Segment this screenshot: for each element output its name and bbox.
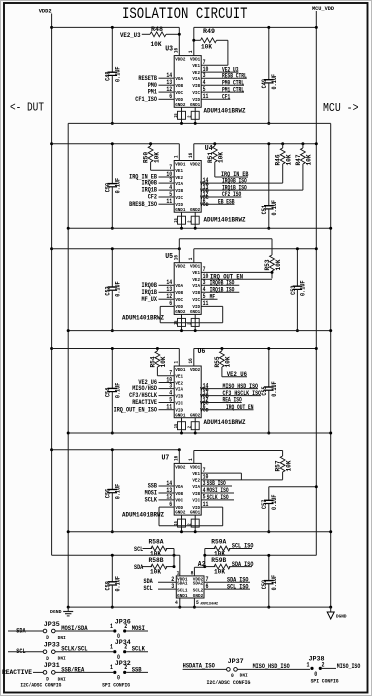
jumper JP37: [183, 658, 248, 679]
svg-text:5: 5: [196, 599, 199, 606]
svg-text:2: 2: [124, 644, 127, 651]
wire VDD2 left power rail: [51, 14, 53, 556]
svg-text:0.1UF: 0.1UF: [115, 576, 122, 592]
svg-text:16: 16: [174, 255, 180, 260]
svg-text:JP32: JP32: [115, 660, 131, 667]
svg-text:0.1UF: 0.1UF: [271, 575, 278, 591]
wire section6 left VDD feed: [52, 554, 180, 556]
wire C57 to MCU_VDD rail: [269, 486, 317, 488]
svg-text:SCL: SCL: [134, 546, 143, 553]
svg-text:0.1UF: 0.1UF: [115, 66, 122, 82]
pin 3 wire: [159, 182, 175, 184]
svg-text:VDD2: VDD2: [175, 264, 185, 270]
pin 1 VDD1: [174, 349, 180, 367]
resistor R59A 10K: [205, 539, 252, 558]
svg-text:RESB_CTRL: RESB_CTRL: [222, 72, 247, 79]
svg-text:C59: C59: [261, 580, 268, 589]
svg-text:16: 16: [174, 456, 180, 461]
svg-text:SDA1: SDA1: [177, 581, 188, 587]
svg-text:SCLK: SCLK: [132, 646, 145, 653]
U6 ground pins: [173, 418, 199, 430]
svg-text:REA_ISO: REA_ISO: [223, 397, 242, 404]
svg-text:MF_UX: MF_UX: [142, 296, 158, 303]
svg-text:1: 1: [110, 644, 113, 651]
svg-text:VOA: VOA: [175, 76, 183, 82]
resistor R49 10K: [192, 28, 228, 65]
svg-text:6: 6: [206, 583, 209, 590]
svg-text:C51: C51: [261, 205, 268, 214]
jumper JP34: [110, 639, 148, 661]
svg-text:VDD1: VDD1: [175, 162, 185, 168]
svg-text:SSB/REA: SSB/REA: [61, 666, 84, 673]
svg-text:1: 1: [177, 570, 180, 577]
pin 10 wire: [159, 176, 175, 178]
capacitor C54: [111, 349, 113, 389]
wire section5 ground: [68, 531, 331, 533]
svg-text:MF: MF: [210, 293, 216, 300]
svg-text:VDD2: VDD2: [175, 464, 185, 470]
svg-text:VDD2: VDD2: [39, 8, 52, 15]
svg-text:VIB: VIB: [175, 188, 183, 194]
svg-text:0.1UF: 0.1UF: [115, 383, 122, 399]
svg-text:SDA_ISO: SDA_ISO: [232, 561, 254, 568]
svg-text:SSB_ISO: SSB_ISO: [207, 480, 226, 487]
wire section1 ground: [68, 122, 331, 124]
jumper JP38: [307, 655, 361, 678]
wire SCLK/SCL: [55, 646, 113, 653]
pin 5 GND2: [194, 598, 199, 607]
junction U5 gnd pins: [181, 326, 183, 330]
svg-text:R46: R46: [275, 154, 282, 165]
pin 6 SCL2: [204, 583, 250, 590]
svg-text:VIA: VIA: [192, 283, 200, 289]
capacitor C55: [268, 349, 270, 388]
svg-text:JP34: JP34: [115, 639, 131, 646]
svg-text:C56: C56: [105, 489, 112, 498]
pin 16 VDD2: [188, 144, 194, 161]
pin 1 VDD1: [188, 249, 194, 263]
U5 ground pins: [173, 314, 199, 326]
svg-text:VE2: VE2: [192, 277, 200, 283]
junction rail VDD2 section2: [50, 142, 53, 145]
pin 14 wire: [159, 284, 175, 286]
pin 4 wire: [201, 492, 234, 494]
pin 16 VDD2: [174, 27, 180, 55]
svg-text:2: 2: [187, 115, 193, 117]
svg-text:4: 4: [175, 599, 178, 606]
svg-text:2: 2: [187, 220, 193, 222]
svg-text:ADUM1250ARZ: ADUM1250ARZ: [201, 602, 219, 606]
svg-text:ADUM1401BRWZ: ADUM1401BRWZ: [204, 419, 246, 426]
pin 7 VE1 wire: [201, 472, 241, 474]
svg-text:10K: 10K: [214, 569, 225, 576]
pin 12 wire: [201, 196, 241, 198]
svg-text:EB_ESB: EB_ESB: [218, 198, 235, 205]
svg-text:2: 2: [124, 664, 127, 671]
svg-text:MISO_ISO: MISO_ISO: [337, 663, 361, 670]
svg-text:2: 2: [187, 426, 193, 428]
svg-text:1: 1: [110, 623, 113, 630]
svg-text:MOSI: MOSI: [132, 625, 145, 632]
svg-text:D: D: [46, 656, 49, 662]
svg-text:MCU ->: MCU ->: [323, 101, 359, 115]
svg-text:R47: R47: [295, 154, 302, 165]
svg-text:VIB: VIB: [192, 290, 200, 296]
svg-text:VOC: VOC: [175, 297, 183, 303]
svg-text:0.1UF: 0.1UF: [115, 178, 122, 194]
pin 3 wire: [201, 284, 239, 286]
node VDD2 stem: [50, 26, 53, 29]
svg-text:R50: R50: [143, 152, 150, 163]
svg-text:IRQ_OUT_EN: IRQ_OUT_EN: [226, 404, 254, 411]
svg-text:VOB: VOB: [175, 83, 183, 89]
svg-text:10K: 10K: [218, 152, 225, 163]
svg-text:VOC: VOC: [175, 90, 183, 96]
svg-text:10K: 10K: [153, 152, 160, 163]
pin 12 wire: [159, 298, 175, 300]
wire section1 left VDD2 feed: [52, 26, 180, 28]
svg-text:1: 1: [110, 664, 113, 671]
pin 7 VE1 wire: [201, 271, 272, 273]
svg-text:VE1: VE1: [175, 168, 183, 174]
svg-text:6: 6: [169, 300, 172, 308]
svg-text:11: 11: [203, 501, 209, 509]
isolator U5 ADUM1401BRWZ body: [174, 263, 201, 315]
svg-text:11: 11: [203, 300, 209, 308]
svg-text:SCL_ISO: SCL_ISO: [232, 543, 254, 550]
svg-text:10K: 10K: [201, 44, 212, 51]
pin 16 VDD2: [174, 239, 180, 263]
svg-text:1: 1: [188, 50, 194, 53]
svg-text:VIA: VIA: [192, 76, 200, 82]
svg-text:3: 3: [171, 583, 174, 590]
svg-text:1: 1: [188, 258, 194, 261]
svg-text:5: 5: [203, 293, 206, 301]
pin 10 VE2 wire: [201, 479, 282, 481]
junction U4 gnd pins: [181, 224, 183, 228]
svg-text:C49: C49: [261, 79, 268, 88]
pin 6 wire: [201, 409, 253, 411]
wire MOSI/SDA: [55, 625, 113, 632]
isolator U7 ADUM1401BRWZ body: [174, 463, 201, 515]
wire section2 ground: [68, 227, 331, 229]
svg-text:1: 1: [188, 458, 194, 461]
svg-text:16: 16: [174, 48, 180, 53]
svg-text:VOD: VOD: [175, 97, 183, 103]
svg-text:0.1UF: 0.1UF: [271, 74, 278, 90]
svg-text:MISO/HSD: MISO/HSD: [132, 385, 157, 392]
svg-text:10K: 10K: [160, 356, 167, 367]
svg-text:SCLK_ISO: SCLK_ISO: [207, 494, 229, 501]
svg-text:C58: C58: [105, 581, 112, 590]
resistor R50 10K: [143, 142, 175, 170]
svg-text:VE2_U6: VE2_U6: [227, 371, 247, 378]
svg-text:JP37: JP37: [228, 658, 244, 665]
wire section4 right MCU_VDD feed: [194, 348, 316, 350]
svg-text:SDA: SDA: [134, 564, 143, 571]
svg-text:VIA: VIA: [175, 386, 183, 392]
svg-text:15: 15: [173, 424, 179, 429]
wire MCU_VDD right power rail: [315, 11, 317, 555]
svg-text:ADUM1401BRWZ: ADUM1401BRWZ: [204, 108, 246, 115]
svg-text:C50: C50: [105, 183, 112, 192]
svg-text:DNI: DNI: [58, 657, 66, 662]
svg-text:VE1: VE1: [192, 63, 200, 69]
svg-text:C57: C57: [261, 500, 268, 509]
svg-text:SCLK: SCLK: [145, 497, 157, 504]
svg-text:0.1UF: 0.1UF: [115, 484, 122, 500]
pin 12 wire: [159, 91, 175, 93]
wire MISO_HSD_ISO: [237, 663, 310, 670]
svg-text:VID: VID: [192, 505, 200, 511]
pin 5 wire: [201, 298, 217, 300]
pin 12 wire: [201, 402, 242, 404]
svg-text:1: 1: [174, 361, 180, 364]
wire SSB/REA: [55, 666, 113, 673]
wire section6 right MCU_VDD feed: [205, 554, 316, 556]
svg-text:VID: VID: [175, 202, 183, 208]
svg-text:VOC: VOC: [175, 498, 183, 504]
svg-text:U5: U5: [165, 253, 173, 261]
svg-text:CF2_ISO: CF2_ISO: [222, 191, 241, 198]
wire R59 pullup bus: [204, 549, 206, 568]
pin 1 VDD1: [174, 144, 180, 161]
svg-text:11: 11: [166, 404, 172, 412]
junction U7 gnd pins: [181, 527, 183, 532]
jumper JP33: [8, 642, 66, 662]
capacitor C51: [268, 144, 270, 206]
svg-text:C55: C55: [261, 386, 268, 395]
svg-text:1: 1: [174, 155, 180, 158]
pin 1 VDD1: [188, 451, 194, 464]
svg-text:CF1_ISO: CF1_ISO: [135, 96, 157, 103]
svg-text:BRESB_ISO: BRESB_ISO: [129, 201, 157, 208]
wire VE1 loop to R53: [179, 238, 272, 240]
wire VE1-VE2 tie: [240, 473, 242, 480]
svg-text:10K: 10K: [275, 259, 282, 270]
svg-text:10K: 10K: [151, 41, 162, 48]
svg-text:16: 16: [188, 358, 194, 363]
svg-text:DNI: DNI: [240, 674, 248, 679]
resistor R46 10K pullup: [275, 142, 293, 183]
U4 ground pins: [173, 212, 199, 224]
svg-text:R51: R51: [207, 152, 214, 163]
pin 14 wire: [159, 77, 175, 79]
svg-text:15: 15: [173, 218, 179, 223]
svg-text:R57: R57: [275, 460, 282, 471]
svg-text:R55: R55: [214, 356, 221, 367]
capacitor C57: [268, 487, 270, 501]
svg-text:JP35: JP35: [44, 621, 60, 628]
svg-text:VIC: VIC: [175, 195, 183, 201]
U7 ground pins: [173, 515, 199, 527]
svg-text:<- DUT: <- DUT: [10, 101, 44, 115]
pin 13 wire: [159, 84, 175, 86]
pin 13 wire: [159, 492, 175, 494]
svg-text:IRQ0B_ISO: IRQ0B_ISO: [210, 280, 235, 287]
svg-text:1: 1: [307, 662, 310, 669]
svg-text:IRQ0B: IRQ0B: [142, 282, 158, 289]
svg-text:CF1: CF1: [222, 94, 230, 101]
junction rail VDD2 section4: [50, 347, 53, 350]
svg-text:SCL_ISO: SCL_ISO: [227, 583, 249, 590]
svg-text:SSB: SSB: [132, 666, 142, 673]
svg-text:IRQ_OUT_EN_ISO: IRQ_OUT_EN_ISO: [114, 406, 157, 413]
svg-text:10K: 10K: [225, 356, 232, 367]
svg-text:VOD: VOD: [175, 505, 183, 511]
svg-text:VE1: VE1: [175, 374, 183, 380]
pin 6 VOD wire loop: [160, 300, 223, 323]
svg-text:VIB: VIB: [192, 83, 200, 89]
svg-text:IRQ0B: IRQ0B: [142, 180, 158, 187]
jumper JP31: [2, 662, 66, 682]
pin 4 GND1: [175, 598, 180, 607]
pin 11 wire: [159, 203, 175, 205]
svg-text:C48: C48: [105, 71, 112, 80]
svg-text:JP31: JP31: [44, 662, 60, 669]
resistor R57 10K: [275, 451, 293, 480]
pin 3 wire: [159, 388, 175, 390]
capacitor C53: [296, 249, 298, 286]
jumper JP35: [8, 621, 66, 641]
wire section4 ground: [68, 432, 331, 434]
svg-text:SCL: SCL: [144, 585, 153, 592]
wire section1 right MCU_VDD feed: [194, 26, 316, 28]
svg-text:R48: R48: [151, 26, 163, 33]
svg-text:RESETB: RESETB: [138, 75, 157, 82]
resistor R51 10K: [207, 142, 248, 177]
svg-text:6: 6: [169, 93, 172, 101]
pin 5 wire: [201, 91, 244, 93]
svg-text:0: 0: [117, 675, 120, 682]
wire section2 left VDD2 feed: [52, 143, 180, 145]
wire VDD1 to R57: [194, 450, 283, 452]
capacitor C59: [268, 555, 270, 580]
wire section4 left VDD2 feed: [52, 348, 180, 350]
wire section6 ground: [68, 606, 331, 608]
svg-text:VID: VID: [175, 408, 183, 414]
junction U3 gnd pins: [181, 119, 183, 123]
svg-text:SSB: SSB: [148, 483, 157, 490]
svg-text:VOD: VOD: [175, 304, 183, 310]
svg-text:SCLK/SCL: SCLK/SCL: [61, 646, 88, 653]
svg-text:VE2: VE2: [175, 380, 183, 386]
svg-text:PM1: PM1: [148, 89, 157, 96]
pin 13 wire: [159, 291, 175, 293]
svg-text:10K: 10K: [150, 569, 161, 576]
svg-text:GND2: GND2: [190, 412, 200, 418]
svg-text:VIC: VIC: [192, 498, 200, 504]
svg-text:R58A: R58A: [149, 539, 164, 546]
svg-text:VIB: VIB: [175, 393, 183, 399]
wire section3 ground: [68, 330, 331, 332]
svg-text:6: 6: [203, 198, 206, 206]
jumper JP36: [110, 619, 148, 641]
U3 ground pins: [173, 107, 199, 119]
svg-text:VE2: VE2: [175, 175, 183, 181]
svg-text:IRQ0B_ISO: IRQ0B_ISO: [222, 177, 247, 184]
svg-text:2: 2: [124, 623, 127, 630]
svg-text:VDD2: VDD2: [190, 162, 200, 168]
svg-text:GND1: GND1: [177, 593, 188, 599]
svg-text:C54: C54: [105, 388, 112, 397]
svg-text:VOA: VOA: [175, 484, 183, 490]
resistor R55 10K: [214, 347, 247, 377]
wire DGND left ground rail: [67, 123, 69, 607]
pin 11 wire: [159, 409, 175, 411]
svg-text:U4: U4: [205, 145, 213, 153]
junction rail VDD2 section3: [50, 247, 53, 250]
svg-text:HSDATA_ISO: HSDATA_ISO: [183, 663, 215, 670]
svg-text:REACTIVE: REACTIVE: [2, 669, 32, 676]
capacitor C50: [111, 144, 113, 184]
svg-text:VE1: VE1: [192, 270, 200, 276]
svg-text:SCL1: SCL1: [177, 588, 188, 594]
svg-text:MISO_HSD_ISO: MISO_HSD_ISO: [223, 383, 259, 390]
svg-text:PM1_CTRL: PM1_CTRL: [222, 86, 244, 93]
svg-text:8: 8: [191, 570, 194, 577]
pin 4 wire: [159, 189, 175, 191]
pin 5 wire: [159, 402, 175, 404]
pin 3 SCL1: [144, 583, 177, 592]
junction rail VDD2 section5: [50, 448, 53, 451]
svg-text:I2C/ADSC CONFIG: I2C/ADSC CONFIG: [20, 682, 61, 688]
svg-text:15: 15: [173, 521, 179, 526]
resistor R59B 10K: [205, 557, 252, 576]
svg-text:VDD1: VDD1: [175, 367, 185, 373]
svg-text:VIC: VIC: [175, 400, 183, 406]
svg-text:VE2_U3: VE2_U3: [120, 32, 141, 39]
svg-text:VID: VID: [192, 304, 200, 310]
svg-text:6: 6: [203, 404, 206, 412]
svg-text:2: 2: [322, 662, 325, 669]
wire section3 right MCU_VDD feed: [194, 248, 316, 250]
svg-text:JP36: JP36: [115, 619, 131, 626]
svg-text:10K: 10K: [306, 154, 313, 165]
svg-text:11: 11: [203, 93, 209, 101]
svg-text:VOB: VOB: [175, 290, 183, 296]
svg-text:SCL2: SCL2: [193, 588, 204, 594]
pin 8 VDD2: [191, 567, 205, 576]
pin 16 VDD2: [174, 450, 180, 464]
pin 14 wire: [159, 485, 175, 487]
resistor R58B 10K: [143, 557, 176, 576]
pin 16 VDD2: [188, 349, 194, 367]
junction U6 gnd pins: [181, 430, 183, 433]
svg-text:6: 6: [169, 501, 172, 509]
pin 5 wire: [159, 196, 175, 198]
svg-text:VIC: VIC: [192, 90, 200, 96]
svg-text:16: 16: [188, 153, 194, 158]
pin 3 wire: [201, 77, 247, 79]
svg-text:SDA2: SDA2: [193, 581, 204, 587]
svg-text:R53: R53: [264, 259, 271, 270]
svg-text:ISOLATION CIRCUIT: ISOLATION CIRCUIT: [122, 5, 248, 23]
pin 13 wire: [201, 189, 303, 191]
isolator U3 ADUM1401BRWZ body: [174, 56, 201, 108]
svg-text:DGND: DGND: [50, 609, 62, 615]
svg-text:U7: U7: [162, 455, 170, 463]
pin 14 wire: [201, 182, 283, 184]
pin 14 wire: [201, 388, 258, 390]
svg-text:R49: R49: [203, 28, 215, 35]
wire section3 left VDD2 feed: [52, 248, 180, 250]
pin 4 wire: [159, 395, 175, 397]
svg-text:R59B: R59B: [211, 557, 226, 564]
pin 12 wire: [159, 499, 175, 501]
svg-text:ADUM1401BRWZ: ADUM1401BRWZ: [122, 512, 164, 519]
svg-text:R58B: R58B: [149, 557, 164, 564]
